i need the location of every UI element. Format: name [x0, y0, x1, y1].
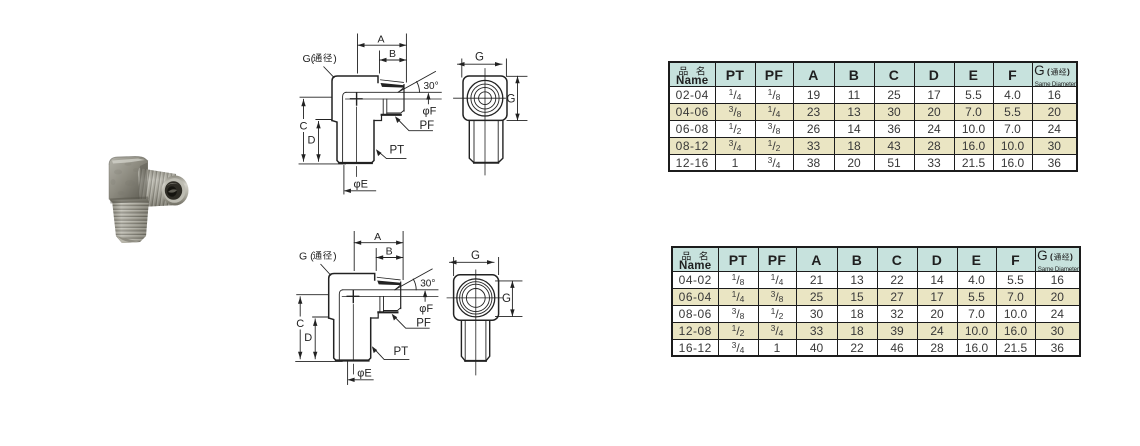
- bore circle: [479, 92, 492, 105]
- bore circle (bottom): [466, 289, 485, 308]
- svg-text:): ): [1067, 66, 1070, 76]
- end view threaded stub (bottom): [461, 320, 489, 361]
- svg-text:): ): [1070, 251, 1073, 261]
- phiE extension line bottom drawing: [347, 361, 349, 385]
- stub thread root lines (bottom): [465, 321, 486, 360]
- photo body-port shadow: [138, 163, 148, 208]
- bottom side view (reuse): [296, 231, 438, 361]
- photo side port threads: [138, 168, 178, 207]
- G top dim extension lines (bottom): [454, 258, 499, 276]
- svg-text:G: G: [502, 293, 511, 305]
- svg-text:G: G: [507, 94, 516, 106]
- body bottom edge: [339, 162, 372, 164]
- PF stub lower half edges: [383, 99, 387, 115]
- svg-text:B: B: [389, 48, 396, 60]
- G right dim extension lines (bottom): [496, 281, 523, 317]
- G top dim line: [458, 63, 503, 65]
- svg-text:): ): [333, 53, 337, 65]
- photo edge strokes: [109, 157, 148, 166]
- photo port end face: [162, 176, 189, 206]
- dimension B extension line: [379, 51, 381, 73]
- 30 degree chamfer line: [398, 72, 436, 93]
- svg-text:30°: 30°: [424, 81, 439, 92]
- G(bore) leader top drawing: [324, 67, 335, 78]
- PT leader top drawing: [378, 151, 407, 159]
- stub bottom edge: [474, 162, 498, 164]
- svg-text:A: A: [377, 34, 384, 46]
- table 2: [671, 246, 1081, 357]
- svg-text:G (: G (: [299, 251, 314, 263]
- crosshair: [454, 69, 506, 176]
- PF thread section band: [381, 83, 405, 88]
- PT section right edge: [372, 121, 375, 164]
- svg-text:PF: PF: [420, 120, 435, 132]
- stub thread root lines: [474, 121, 498, 161]
- angle arc: [417, 82, 420, 93]
- svg-text:G(: G(: [303, 53, 315, 65]
- photo stem bottom face: [116, 236, 140, 243]
- PF stub bottom edge: [387, 110, 404, 113]
- dimension A extension lines: [358, 34, 407, 82]
- PF leader: [397, 118, 433, 131]
- bore corner: [343, 92, 346, 162]
- technical drawings svg: [285, 25, 547, 420]
- photo bottom stem threads: [112, 199, 149, 243]
- vertical centerline: [356, 107, 358, 163]
- G right dim line (bottom): [511, 281, 513, 317]
- G right dim line: [517, 76, 519, 120]
- thread root circle (bottom): [460, 282, 492, 314]
- thread outer circle: [467, 80, 503, 116]
- G right dim extension lines: [507, 76, 528, 120]
- G(bore) leader bottom drawing: [321, 264, 332, 276]
- phiE extension line top drawing: [343, 166, 345, 195]
- table 1: [668, 61, 1078, 172]
- phiE dimension line top drawing: [345, 190, 376, 192]
- svg-text:C: C: [300, 121, 308, 133]
- PT section left edge: [332, 121, 339, 164]
- dimension C line: [303, 99, 305, 161]
- svg-text:φE: φE: [357, 367, 371, 379]
- crosshair (bottom): [447, 270, 503, 375]
- phiF arrow: [427, 94, 429, 104]
- dimension D extension line: [316, 119, 332, 121]
- body outline: [332, 76, 378, 121]
- svg-text:φE: φE: [354, 179, 368, 191]
- inner corner below stub: [374, 115, 382, 121]
- end view square body (bottom): [454, 275, 499, 320]
- svg-text:(: (: [1047, 66, 1050, 76]
- dimension B line: [380, 59, 407, 61]
- G top dim line (bottom): [450, 261, 495, 263]
- svg-text:D: D: [308, 135, 316, 147]
- photo port bore: [165, 181, 182, 200]
- photo body block: [109, 157, 148, 203]
- PT leader bottom drawing: [373, 348, 409, 360]
- dimension C extension lines: [299, 97, 346, 164]
- photo body lower shadow: [110, 197, 149, 204]
- svg-text:G: G: [475, 52, 484, 64]
- thread root circle: [471, 84, 499, 112]
- svg-text:PT: PT: [394, 346, 409, 358]
- phiE dimension line bottom drawing: [349, 379, 374, 381]
- stub bottom edge (bottom): [465, 360, 486, 362]
- svg-text:G: G: [471, 250, 480, 262]
- end view threaded stub: [469, 121, 503, 163]
- bore line: [346, 91, 441, 93]
- PF stub right edge: [403, 85, 405, 111]
- G top dim extension lines: [462, 59, 507, 77]
- horizontal centerline: [346, 98, 442, 100]
- centerline below body bottom drawing: [352, 364, 354, 374]
- svg-text:(: (: [1050, 251, 1053, 261]
- centerline below body top drawing: [356, 167, 358, 177]
- counterbore circle: [474, 87, 496, 109]
- svg-text:φF: φF: [423, 106, 437, 118]
- dimension A line: [358, 44, 407, 46]
- center cross: [351, 93, 363, 105]
- end view square body: [463, 76, 507, 120]
- counterbore circle (bottom): [462, 284, 489, 311]
- photo body texture: [111, 162, 140, 195]
- svg-text:PT: PT: [390, 145, 405, 157]
- dimension D line: [318, 121, 320, 161]
- photo of elbow fitting: [90, 150, 205, 250]
- svg-text:): ): [333, 251, 337, 263]
- thread outer circle (bottom): [457, 279, 495, 317]
